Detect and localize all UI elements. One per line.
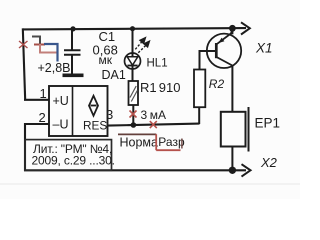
- wire pin 2: [25, 123, 50, 125]
- junction node HL1/top rail: [130, 26, 135, 31]
- svg-text:910: 910: [159, 80, 181, 95]
- LED emission arrows: [135, 38, 149, 53]
- waveform overline Norma: [118, 133, 156, 135]
- terminal arrow X2: [242, 164, 251, 176]
- wire pin 3 output: [108, 124, 200, 126]
- svg-text:ЕР1: ЕР1: [255, 115, 281, 130]
- wire HL1 through LED to R1: [132, 29, 134, 81]
- annotation dark corner: [32, 37, 40, 45]
- svg-text:+2,8В: +2,8В: [38, 61, 71, 75]
- element EP1 box: [221, 112, 246, 147]
- wire base to R2: [199, 51, 201, 70]
- wire C1 top: [71, 29, 73, 50]
- wire R2 bottom to output: [198, 107, 200, 124]
- junction node C1/top rail: [70, 26, 75, 31]
- wire EP1 bottom: [231, 147, 233, 171]
- emitter: [217, 29, 233, 44]
- svg-text:1: 1: [40, 86, 47, 101]
- terminal arrow X1: [241, 22, 250, 34]
- literature reference box: [25, 140, 112, 171]
- capacitor C1: [64, 49, 81, 51]
- wire C1 bottom: [71, 56, 73, 74]
- junction node R1/output wire: [131, 122, 137, 128]
- wire pin2 down to bottom rail: [24, 123, 26, 171]
- collector: [217, 57, 233, 66]
- junction node EP1/bottom rail: [229, 167, 236, 174]
- partial letter tick after Razr: [181, 139, 183, 149]
- red cross below R1: [130, 111, 137, 118]
- svg-text:2009, с.29 ...30.: 2009, с.29 ...30.: [32, 154, 115, 168]
- annotation blue step wire: [44, 44, 58, 62]
- page rule line: [0, 183, 300, 185]
- svg-text:DA1: DA1: [102, 68, 126, 82]
- wire top rail: [23, 28, 246, 29]
- R1 hatch marks: [130, 86, 137, 102]
- svg-text:R1: R1: [140, 80, 157, 95]
- DA1 diamond symbol: [89, 96, 98, 116]
- svg-text:мА: мА: [150, 108, 166, 122]
- red cross mark on left wire: [19, 41, 28, 48]
- red cross on output wire: [150, 121, 157, 128]
- transistor VT1 (PNP): [199, 28, 242, 68]
- svg-text:+U: +U: [53, 94, 69, 108]
- wire R1 bottom: [132, 105, 134, 125]
- svg-text:2: 2: [39, 110, 46, 125]
- EP1 right electrode bar: [248, 107, 250, 152]
- svg-text:–U: –U: [53, 118, 69, 132]
- ground common bar: [63, 74, 84, 78]
- LED HL1: [125, 53, 141, 69]
- annotation red step wire: [40, 44, 57, 53]
- annotation red tick: [34, 44, 45, 46]
- IC DA1 supervisor box: [49, 86, 108, 136]
- svg-text:RES: RES: [83, 119, 107, 133]
- wire collector down to EP1: [231, 65, 233, 112]
- emitter arrowhead: [218, 38, 224, 43]
- DA1 divider: [72, 86, 74, 136]
- wire left vertical to pin 1: [23, 28, 25, 100]
- base bar: [215, 43, 218, 58]
- resistor R1: [129, 81, 139, 105]
- svg-text:3: 3: [141, 108, 148, 122]
- svg-text:Норма: Норма: [120, 135, 159, 149]
- wire bottom rail: [24, 169, 246, 171]
- resistor R2: [194, 70, 205, 108]
- svg-text:R2: R2: [209, 77, 225, 91]
- svg-text:мк: мк: [99, 53, 113, 67]
- wire pin 1: [24, 99, 50, 101]
- base wire: [199, 50, 217, 52]
- svg-text:3: 3: [106, 107, 113, 122]
- junction node collector/top rail: [229, 25, 236, 32]
- svg-text:X2: X2: [260, 155, 278, 170]
- svg-text:HL1: HL1: [147, 58, 168, 70]
- svg-text:X1: X1: [255, 40, 273, 55]
- waveform red falling edge: [155, 134, 157, 150]
- waveform red underline: [156, 149, 180, 151]
- svg-text:Разр: Разр: [158, 135, 185, 149]
